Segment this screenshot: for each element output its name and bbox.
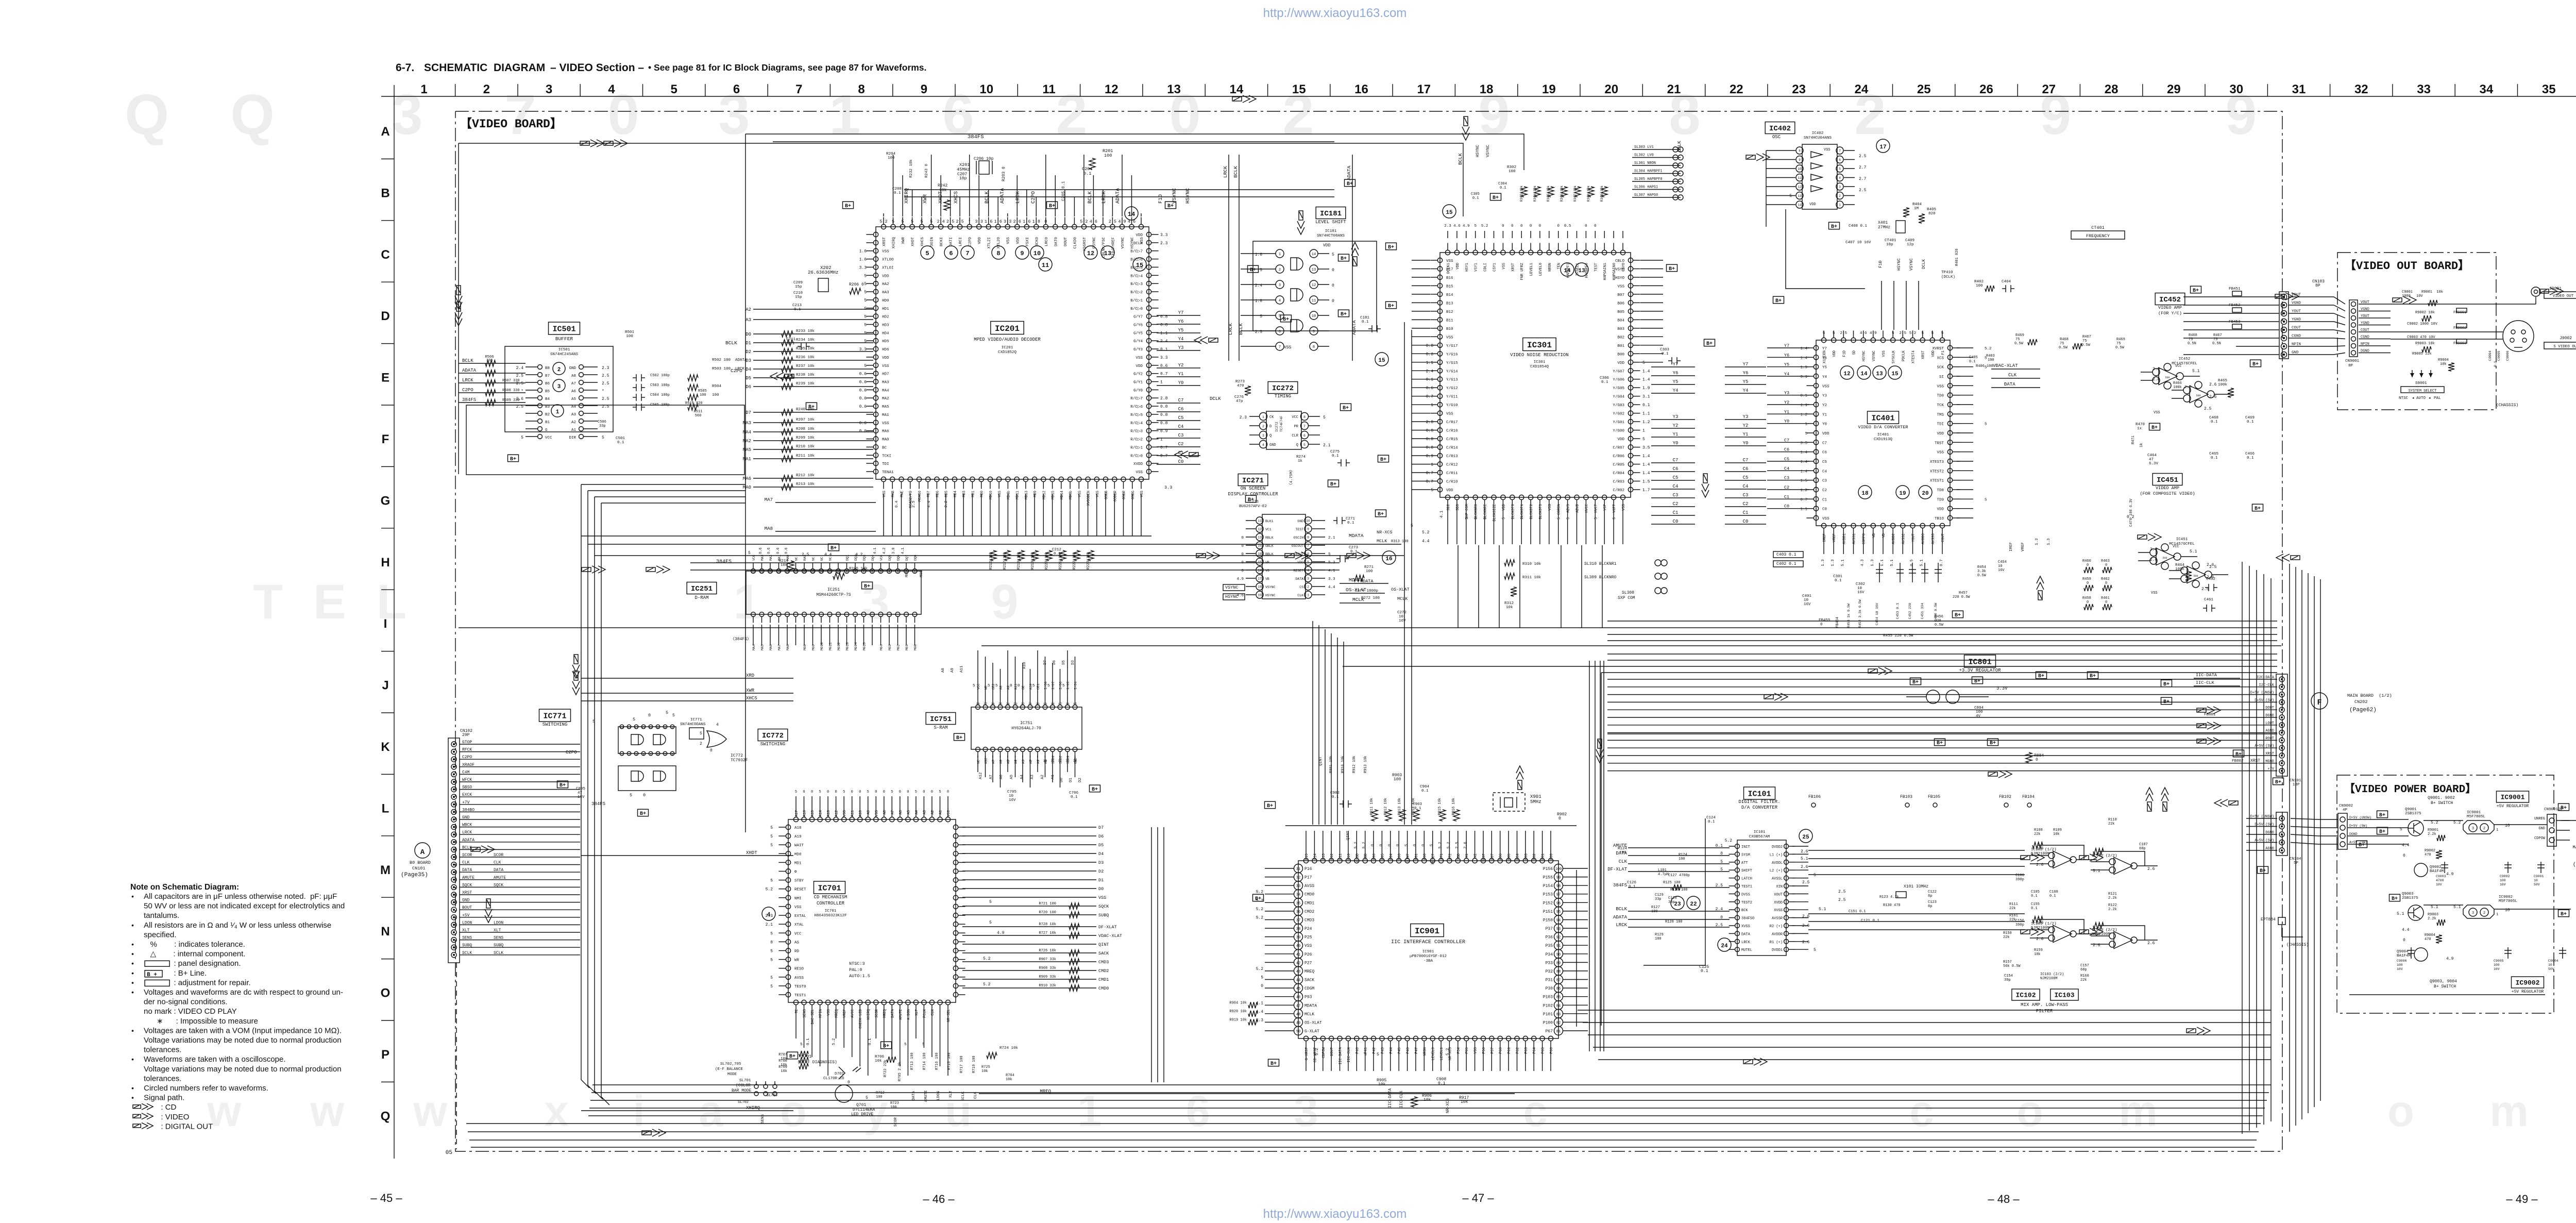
svg-text:MCLK: MCLK bbox=[1377, 539, 1387, 544]
svg-text:1.7: 1.7 bbox=[1642, 488, 1650, 493]
svg-text:38: 38 bbox=[1296, 927, 1300, 931]
svg-text:1.1: 1.1 bbox=[1160, 331, 1168, 336]
svg-text:R219 10k: R219 10k bbox=[1031, 552, 1035, 569]
svg-text:2.5: 2.5 bbox=[1838, 890, 1846, 894]
svg-text:C2PO: C2PO bbox=[462, 388, 473, 393]
svg-text:B+: B+ bbox=[640, 811, 646, 817]
svg-text:Y5: Y5 bbox=[1178, 328, 1184, 333]
svg-text:MA1: MA1 bbox=[743, 457, 751, 462]
svg-text:3.3: 3.3 bbox=[1164, 485, 1172, 490]
svg-text:14: 14 bbox=[1312, 253, 1316, 257]
svg-text:MA3: MA3 bbox=[882, 381, 889, 385]
svg-text:15: 15 bbox=[1446, 210, 1453, 216]
svg-text:SCLK: SCLK bbox=[494, 951, 503, 956]
svg-text:35: 35 bbox=[2542, 82, 2556, 96]
svg-text:1: 1 bbox=[1077, 1087, 1101, 1136]
svg-text:C5: C5 bbox=[1822, 460, 1827, 464]
svg-text:SL301 NRON: SL301 NRON bbox=[1634, 161, 1656, 165]
svg-text:P152: P152 bbox=[1543, 901, 1553, 906]
svg-text:DOUT: DOUT bbox=[1330, 1047, 1334, 1056]
svg-text:FILTER: FILTER bbox=[2036, 1009, 2053, 1014]
svg-text:CORON: CORON bbox=[1557, 504, 1562, 515]
svg-text:A4: A4 bbox=[571, 405, 577, 409]
svg-text:SN74HC245ANS: SN74HC245ANS bbox=[550, 353, 579, 357]
svg-text:L101: L101 bbox=[1658, 868, 1667, 873]
svg-text:AVDD: AVDD bbox=[1355, 853, 1360, 862]
svg-text:LRCK: LRCK bbox=[1228, 323, 1233, 335]
svg-text:P30: P30 bbox=[1546, 986, 1553, 991]
svg-text:0.1: 0.1 bbox=[2247, 420, 2254, 424]
svg-text:P153: P153 bbox=[1543, 893, 1553, 897]
svg-text:AVSSL: AVSSL bbox=[1772, 877, 1783, 881]
svg-text:P87: P87 bbox=[1490, 853, 1495, 860]
svg-text:VSS: VSS bbox=[1617, 284, 1624, 289]
svg-text:22: 22 bbox=[1021, 702, 1025, 706]
svg-text:Q9002: Q9002 bbox=[2430, 865, 2442, 869]
svg-text:XRD: XRD bbox=[746, 673, 754, 678]
svg-text:VCC: VCC bbox=[794, 932, 802, 936]
svg-text:R108: R108 bbox=[2034, 828, 2043, 832]
IC772 switching gate bbox=[672, 713, 788, 763]
svg-text:24: 24 bbox=[1006, 702, 1010, 706]
svg-text:BOUT: BOUT bbox=[462, 906, 472, 910]
svg-text:100k: 100k bbox=[2175, 567, 2185, 572]
svg-text:C/R04: C/R04 bbox=[1613, 472, 1624, 476]
svg-text:14: 14 bbox=[1258, 569, 1262, 573]
svg-text:8p: 8p bbox=[1928, 904, 1932, 909]
svg-text:5.2: 5.2 bbox=[766, 887, 773, 892]
svg-text:2.7: 2.7 bbox=[1859, 177, 1867, 181]
svg-text:C108: C108 bbox=[2049, 890, 2058, 894]
svg-text:CLR: CLR bbox=[1292, 434, 1298, 438]
svg-text:C127 4700p: C127 4700p bbox=[1668, 874, 1690, 878]
svg-text:10: 10 bbox=[979, 82, 993, 96]
svg-text:5: 5 bbox=[770, 879, 773, 883]
svg-text:C271: C271 bbox=[1346, 517, 1355, 521]
svg-text:15: 15 bbox=[1378, 358, 1385, 364]
svg-text:5: 5 bbox=[1328, 552, 1331, 557]
svg-text:5: 5 bbox=[700, 731, 702, 736]
svg-text:R458: R458 bbox=[2082, 596, 2091, 600]
svg-text:MCLK: MCLK bbox=[1352, 597, 1364, 602]
svg-text:Y6: Y6 bbox=[1178, 319, 1184, 324]
svg-text:A12: A12 bbox=[985, 758, 988, 764]
svg-text:5.2: 5.2 bbox=[879, 219, 887, 224]
svg-text:22k: 22k bbox=[2080, 978, 2087, 982]
svg-text:R469: R469 bbox=[2116, 338, 2125, 342]
svg-text:0: 0 bbox=[859, 790, 861, 794]
svg-text:A3: A3 bbox=[745, 317, 751, 323]
svg-text:XWR: XWR bbox=[902, 237, 906, 244]
svg-text:B+: B+ bbox=[883, 1044, 889, 1049]
svg-text:3.3: 3.3 bbox=[1160, 233, 1168, 238]
svg-text:MREQ: MREQ bbox=[1304, 969, 1314, 974]
svg-text:P16: P16 bbox=[1304, 867, 1312, 872]
svg-text:2.4: 2.4 bbox=[1716, 907, 1723, 912]
svg-text:Y1: Y1 bbox=[1743, 432, 1749, 437]
svg-text:5: 5 bbox=[1431, 488, 1433, 493]
svg-text:100: 100 bbox=[888, 156, 895, 160]
svg-text:R111: R111 bbox=[2009, 902, 2018, 907]
svg-text:IC103 (1/2): IC103 (1/2) bbox=[2031, 922, 2057, 926]
svg-text:B+: B+ bbox=[1388, 304, 1394, 309]
svg-text:MWE: MWE bbox=[901, 491, 905, 497]
svg-text:SL303 LV1: SL303 LV1 bbox=[1634, 145, 1654, 149]
svg-text:24: 24 bbox=[1721, 943, 1728, 949]
svg-text:AGND: AGND bbox=[2265, 847, 2274, 851]
svg-text:DOUT: DOUT bbox=[1064, 237, 1068, 247]
svg-text:0: 0 bbox=[907, 790, 909, 794]
svg-text:C408 0.1: C408 0.1 bbox=[1849, 224, 1868, 228]
svg-text:P46: P46 bbox=[1406, 1047, 1411, 1054]
svg-text:R913 10k: R913 10k bbox=[1398, 798, 1402, 815]
svg-text:IC102 (1/2): IC102 (1/2) bbox=[2031, 848, 2057, 852]
svg-text:M09: M09 bbox=[812, 644, 816, 650]
svg-text:C1: C1 bbox=[1784, 494, 1789, 499]
svg-text:25: 25 bbox=[998, 702, 1003, 706]
svg-text:C/R07: C/R07 bbox=[1613, 446, 1624, 450]
svg-text:VSS: VSS bbox=[1622, 504, 1626, 511]
svg-text:5: 5 bbox=[1307, 561, 1309, 564]
svg-text:2.3: 2.3 bbox=[1160, 241, 1168, 246]
svg-text:Q9004: Q9004 bbox=[2397, 950, 2409, 954]
svg-text:XHCS: XHCS bbox=[954, 191, 959, 204]
svg-text:B05: B05 bbox=[1617, 310, 1624, 314]
svg-text:TD0: TD0 bbox=[1937, 394, 1944, 398]
svg-text:TD9: TD9 bbox=[1937, 498, 1944, 502]
svg-text:C6: C6 bbox=[1822, 451, 1827, 455]
svg-text:F1D: F1D bbox=[1158, 194, 1164, 204]
svg-text:c: c bbox=[1909, 1087, 1934, 1136]
svg-text:P82: P82 bbox=[1533, 853, 1537, 860]
svg-text:A3: A3 bbox=[571, 413, 577, 417]
IC271 osd controller bbox=[1223, 467, 1410, 623]
svg-text:384BO: 384BO bbox=[462, 808, 474, 812]
svg-text:0: 0 bbox=[931, 790, 933, 794]
svg-text:DATA: DATA bbox=[891, 1009, 895, 1018]
svg-text:8: 8 bbox=[1799, 149, 1801, 153]
svg-text:15: 15 bbox=[1073, 702, 1077, 706]
svg-text:OSDBR: OSDBR bbox=[1113, 490, 1117, 501]
svg-text:13: 13 bbox=[1258, 536, 1262, 540]
svg-text:Y/G04: Y/G04 bbox=[1613, 395, 1624, 399]
svg-text:DOUT: DOUT bbox=[2265, 706, 2274, 710]
svg-text:R208 10k: R208 10k bbox=[796, 427, 815, 431]
svg-text:A4: A4 bbox=[915, 810, 919, 814]
svg-text:MA6: MA6 bbox=[743, 476, 751, 481]
svg-text:0.6: 0.6 bbox=[776, 547, 781, 554]
svg-text:C213: C213 bbox=[792, 304, 802, 308]
svg-text:XTEST1: XTEST1 bbox=[1930, 479, 1944, 483]
svg-text:IC771: IC771 bbox=[543, 712, 566, 721]
svg-text:HD0: HD0 bbox=[882, 299, 889, 303]
svg-text:VSS: VSS bbox=[1937, 451, 1944, 455]
svg-text:G: G bbox=[545, 428, 548, 432]
svg-text:HAPGAIN1: HAPGAIN1 bbox=[1603, 263, 1607, 280]
svg-text:5: 5 bbox=[770, 843, 773, 848]
svg-text:11: 11 bbox=[1042, 262, 1049, 269]
svg-text:B+: B+ bbox=[1388, 245, 1394, 250]
svg-text:P55: P55 bbox=[1465, 1047, 1469, 1054]
svg-text:B2: B2 bbox=[545, 413, 550, 417]
svg-text:5.1: 5.1 bbox=[2093, 869, 2100, 874]
svg-text:Q9003: Q9003 bbox=[2402, 892, 2414, 896]
svg-text:SUBQ: SUBQ bbox=[494, 943, 503, 948]
svg-text:5: 5 bbox=[901, 219, 904, 224]
svg-text:5: 5 bbox=[770, 826, 773, 830]
svg-text:R507 330: R507 330 bbox=[502, 379, 520, 383]
svg-text:DAC-SEL: DAC-SEL bbox=[811, 1009, 815, 1024]
svg-text:C3: C3 bbox=[1673, 493, 1679, 498]
svg-text:0: 0 bbox=[1720, 915, 1723, 920]
svg-text:BBLK: BBLK bbox=[1265, 552, 1274, 556]
svg-text:C2PO: C2PO bbox=[462, 755, 472, 760]
svg-text:8: 8 bbox=[671, 753, 673, 757]
svg-text:2.4: 2.4 bbox=[937, 219, 944, 224]
svg-text:D3: D3 bbox=[1098, 860, 1104, 865]
svg-text:R722 22k: R722 22k bbox=[884, 1060, 888, 1077]
svg-text:R907 33k: R907 33k bbox=[1039, 958, 1056, 962]
svg-text:0.7: 0.7 bbox=[1800, 498, 1807, 502]
svg-text:5: 5 bbox=[602, 435, 604, 440]
svg-text:VDD: VDD bbox=[882, 356, 889, 360]
svg-text:MA1: MA1 bbox=[882, 413, 889, 417]
svg-text:4.3: 4.3 bbox=[1861, 559, 1865, 566]
svg-text:D+5V (UNSW): D+5V (UNSW) bbox=[2250, 691, 2274, 695]
svg-text:0: 0 bbox=[2403, 938, 2405, 943]
svg-text:CMD0: CMD0 bbox=[1098, 986, 1109, 991]
svg-text:R706: R706 bbox=[875, 1055, 885, 1059]
svg-text:CN104: CN104 bbox=[2290, 857, 2301, 861]
svg-text:SD: SD bbox=[1853, 350, 1857, 355]
svg-text:5.2: 5.2 bbox=[1315, 1048, 1319, 1056]
svg-text:CE2: CE2 bbox=[992, 683, 995, 690]
svg-text:89: 89 bbox=[1556, 961, 1561, 965]
svg-text:F1D: F1D bbox=[1842, 350, 1846, 357]
svg-text:2.8: 2.8 bbox=[1426, 420, 1434, 425]
svg-text:R459: R459 bbox=[2082, 577, 2091, 581]
svg-text:A3: A3 bbox=[1030, 774, 1035, 779]
svg-text:XTAL: XTAL bbox=[794, 923, 804, 927]
svg-text:D1: D1 bbox=[1069, 777, 1073, 782]
svg-text:MDATA: MDATA bbox=[1304, 1003, 1317, 1008]
svg-text:30: 30 bbox=[2229, 82, 2243, 96]
svg-text:+5V REGULATOR: +5V REGULATOR bbox=[2497, 804, 2529, 809]
svg-text:5.2: 5.2 bbox=[1256, 916, 1264, 920]
svg-text:B+: B+ bbox=[2379, 829, 2385, 835]
svg-text:7: 7 bbox=[863, 570, 865, 574]
svg-text:10k: 10k bbox=[1461, 1100, 1468, 1104]
svg-text:0: 0 bbox=[1241, 569, 1244, 573]
svg-text:5: 5 bbox=[1062, 684, 1065, 688]
svg-text:R130 470: R130 470 bbox=[1883, 903, 1901, 908]
svg-text:R504: R504 bbox=[712, 384, 722, 389]
svg-text:0: 0 bbox=[1421, 844, 1426, 846]
svg-text:A2: A2 bbox=[931, 810, 935, 814]
svg-text:R220 10k: R220 10k bbox=[1045, 552, 1049, 569]
svg-text:D1: D1 bbox=[1098, 878, 1104, 883]
svg-text:2SB1375: 2SB1375 bbox=[2402, 896, 2418, 900]
svg-text:C: C bbox=[381, 248, 389, 262]
svg-text:15: 15 bbox=[1292, 82, 1306, 96]
svg-text:20: 20 bbox=[1604, 82, 1618, 96]
svg-text:IIC-DATA: IIC-DATA bbox=[2196, 673, 2217, 678]
svg-text:7: 7 bbox=[965, 250, 969, 257]
svg-text:M014: M014 bbox=[854, 642, 858, 650]
svg-text:5: 5 bbox=[1465, 517, 1469, 520]
svg-text:0.1: 0.1 bbox=[1414, 807, 1421, 811]
svg-text:Y/G07: Y/G07 bbox=[1613, 370, 1624, 374]
svg-text:C6: C6 bbox=[1784, 447, 1789, 453]
svg-text:A4: A4 bbox=[1014, 760, 1018, 764]
svg-text:87: 87 bbox=[1556, 979, 1561, 983]
svg-text:C2: C2 bbox=[1743, 501, 1749, 507]
svg-text:AGND: AGND bbox=[2265, 729, 2274, 733]
svg-text:5: 5 bbox=[864, 339, 867, 344]
svg-text:SCLK: SCLK bbox=[961, 1091, 965, 1101]
svg-text:MIX AMP. LOW-PASS: MIX AMP. LOW-PASS bbox=[2021, 1002, 2068, 1008]
svg-text:0: 0 bbox=[1720, 851, 1723, 856]
svg-text:5: 5 bbox=[1823, 331, 1825, 336]
svg-text:CXD1854Q: CXD1854Q bbox=[1530, 365, 1549, 369]
svg-text:5MHz: 5MHz bbox=[1530, 799, 1541, 805]
svg-text:B+: B+ bbox=[1347, 181, 1353, 187]
svg-text:GBLK: GBLK bbox=[1265, 544, 1274, 548]
svg-text:VSS: VSS bbox=[1140, 491, 1144, 497]
svg-text:M03: M03 bbox=[888, 644, 892, 650]
svg-text:A1: A1 bbox=[939, 810, 943, 814]
svg-text:R232 10k: R232 10k bbox=[909, 159, 913, 178]
svg-text:13P: 13P bbox=[2293, 783, 2300, 787]
svg-text:*: * bbox=[602, 389, 604, 394]
svg-text:MD3: MD3 bbox=[962, 491, 967, 497]
svg-text:0.1: 0.1 bbox=[1332, 454, 1339, 458]
svg-text:1.6: 1.6 bbox=[985, 219, 992, 224]
VIDEO OUT BOARD outline bbox=[2337, 253, 2496, 410]
svg-text:XVDD: XVDD bbox=[1774, 901, 1783, 905]
svg-text:μPB780016YGF-012: μPB780016YGF-012 bbox=[1410, 954, 1447, 959]
svg-text:R728 10k: R728 10k bbox=[1039, 923, 1056, 927]
svg-text:98: 98 bbox=[1556, 884, 1561, 889]
svg-text:R404: R404 bbox=[1912, 203, 1922, 207]
svg-text:N: N bbox=[381, 925, 389, 939]
svg-text:CN9002: CN9002 bbox=[2339, 804, 2353, 808]
svg-text:VSS: VSS bbox=[794, 906, 802, 910]
svg-text:5: 5 bbox=[864, 323, 867, 328]
svg-text:DCLK: DCLK bbox=[1922, 259, 1926, 269]
svg-text:P04: P04 bbox=[1389, 853, 1394, 860]
svg-text:SQCK: SQCK bbox=[462, 883, 472, 887]
svg-text:R210 10k: R210 10k bbox=[796, 445, 815, 449]
svg-text:SXP COM: SXP COM bbox=[1465, 504, 1469, 519]
svg-text:IC251: IC251 bbox=[691, 585, 713, 593]
svg-text:B+: B+ bbox=[1270, 1061, 1277, 1067]
svg-text:QINT: QINT bbox=[1319, 756, 1323, 766]
svg-text:C/R15: C/R15 bbox=[1446, 438, 1458, 442]
svg-text:VREF: VREF bbox=[1833, 533, 1837, 542]
svg-text:0.5W: 0.5W bbox=[2115, 346, 2125, 350]
svg-text:R713 100: R713 100 bbox=[910, 1052, 914, 1070]
svg-text:B+: B+ bbox=[2163, 699, 2170, 705]
svg-text:14: 14 bbox=[1798, 204, 1802, 207]
svg-text:0: 0 bbox=[899, 790, 901, 794]
svg-text:CS: CS bbox=[1299, 585, 1303, 589]
svg-text:4.6: 4.6 bbox=[1860, 331, 1867, 336]
svg-text:M011: M011 bbox=[829, 642, 833, 650]
svg-text:XTEST4: XTEST4 bbox=[1912, 350, 1916, 363]
svg-text:A11: A11 bbox=[851, 810, 855, 817]
svg-text:PCLK: PCLK bbox=[923, 1009, 927, 1018]
svg-text:VSYO: VSYO bbox=[1615, 268, 1625, 272]
svg-text:C2: C2 bbox=[1673, 501, 1679, 507]
svg-text:R901 10k: R901 10k bbox=[1329, 756, 1333, 773]
svg-text:C0: C0 bbox=[1178, 459, 1184, 464]
svg-text:TE: TE bbox=[795, 1009, 799, 1013]
svg-text:0.6: 0.6 bbox=[859, 429, 867, 434]
svg-text:AVSS: AVSS bbox=[794, 976, 804, 980]
VIDEO OUT BOARD circuit bbox=[2345, 287, 2576, 408]
svg-text:500: 500 bbox=[2196, 394, 2200, 397]
svg-text:VCC: VCC bbox=[2173, 545, 2179, 549]
svg-text:2.5: 2.5 bbox=[1802, 880, 1810, 885]
svg-text:ABVD: ABVD bbox=[1576, 504, 1580, 513]
svg-text:VOUT: VOUT bbox=[2361, 300, 2369, 305]
svg-text:IC102: IC102 bbox=[2015, 992, 2036, 999]
svg-text:VCC: VCC bbox=[752, 555, 756, 561]
svg-text:0: 0 bbox=[1044, 219, 1047, 224]
svg-text:0: 0 bbox=[2036, 758, 2038, 762]
svg-text:2.4: 2.4 bbox=[1426, 369, 1434, 374]
svg-text:(CHASSIS): (CHASSIS) bbox=[2286, 943, 2309, 947]
svg-text:LEVEL1: LEVEL1 bbox=[1440, 1047, 1444, 1060]
svg-text:R2 (+): R2 (+) bbox=[1770, 925, 1783, 929]
svg-text:FB9003: FB9003 bbox=[2453, 342, 2466, 346]
svg-text:R725: R725 bbox=[981, 1065, 990, 1069]
svg-text:MDATA: MDATA bbox=[1349, 533, 1364, 539]
svg-text:I/O1: I/O1 bbox=[1052, 756, 1055, 764]
svg-text:C453 0.1: C453 0.1 bbox=[1896, 603, 1900, 619]
svg-text:2: 2 bbox=[1279, 268, 1281, 272]
svg-text:0.1: 0.1 bbox=[1083, 171, 1091, 176]
svg-text:B+: B+ bbox=[1669, 266, 1675, 272]
svg-text:IC701: IC701 bbox=[818, 884, 841, 893]
svg-text:•: • bbox=[131, 988, 134, 996]
svg-text:4.9: 4.9 bbox=[1236, 577, 1244, 581]
svg-text:2.5: 2.5 bbox=[2209, 565, 2217, 569]
IC801 3.3v regulator bbox=[1906, 655, 2098, 763]
svg-text:A10: A10 bbox=[1023, 662, 1027, 669]
svg-text:B+: B+ bbox=[2090, 674, 2096, 679]
svg-text:COUT: COUT bbox=[2361, 328, 2369, 332]
svg-text:XWR: XWR bbox=[923, 194, 928, 204]
svg-text:MD11: MD11 bbox=[1016, 491, 1020, 499]
svg-text:B+: B+ bbox=[789, 1054, 795, 1060]
svg-text:ON SCREEN: ON SCREEN bbox=[1241, 486, 1266, 491]
svg-text:R460: R460 bbox=[2082, 559, 2091, 563]
svg-text:1: 1 bbox=[1805, 423, 1807, 427]
svg-text:C3: C3 bbox=[1743, 493, 1749, 498]
svg-text:R704: R704 bbox=[1006, 1074, 1014, 1078]
svg-text:Y/G11: Y/G11 bbox=[1446, 395, 1458, 399]
svg-text:MD1: MD1 bbox=[971, 491, 975, 497]
VIDEO POWER BOARD outline bbox=[2337, 775, 2554, 1013]
svg-text:HSYNC: HSYNC bbox=[1225, 594, 1239, 599]
svg-text:A0: A0 bbox=[1044, 760, 1048, 764]
svg-text:VSS: VSS bbox=[882, 422, 889, 426]
svg-text:0.1: 0.1 bbox=[1472, 196, 1479, 200]
svg-text:B/C▷4: B/C▷4 bbox=[1130, 274, 1143, 278]
svg-text:J: J bbox=[382, 679, 388, 693]
